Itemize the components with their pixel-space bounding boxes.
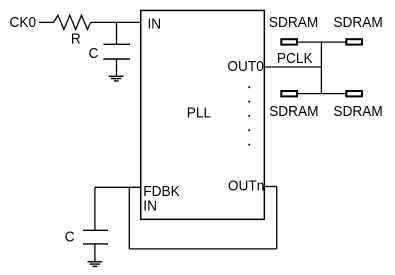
wire down to capacitor C2 [94, 187, 96, 230]
termination resistor (bottom left) [281, 91, 297, 96]
svg-text:OUT0: OUT0 [227, 58, 263, 75]
PLL block label [187, 105, 211, 122]
wire node down to capacitor C1 [116, 22, 118, 44]
svg-text:SDRAM: SDRAM [269, 103, 318, 120]
pin label IN [148, 16, 162, 33]
capacitor C2 value label C [65, 229, 75, 246]
svg-text:CK0: CK0 [10, 14, 37, 31]
svg-text:PLL: PLL [187, 105, 211, 122]
wire FDBK IN pin to capacitor branch [95, 186, 140, 188]
svg-text:SDRAM: SDRAM [333, 103, 382, 120]
svg-text:OUTn: OUTn [228, 178, 264, 195]
node PCLK label [277, 51, 313, 68]
svg-text:SDRAM: SDRAM [269, 14, 318, 31]
resistor value label R [71, 31, 81, 48]
wire feedback bottom horizontal [129, 248, 276, 250]
SDRAM label (bottom right) [333, 103, 382, 120]
svg-text:IN: IN [148, 16, 162, 33]
SDRAM label (top left) [269, 14, 318, 31]
wire capacitor C1 to ground [116, 59, 118, 76]
capacitor C1 [103, 44, 130, 59]
resistor R [54, 15, 91, 29]
wire top row to termination resistors [298, 41, 345, 43]
svg-text:SDRAM: SDRAM [333, 14, 382, 31]
wire feedback left vertical [128, 187, 130, 249]
wire PCLK vertical bus [320, 42, 322, 94]
wire node to PLL IN pin [117, 21, 141, 23]
svg-text:PCLK: PCLK [277, 51, 313, 68]
wire feedback right vertical [276, 187, 278, 249]
wire OUT0 to PCLK bus [265, 66, 322, 68]
wire OUTn out of PLL [265, 186, 277, 188]
svg-text:R: R [71, 31, 81, 48]
wire resistor to node [91, 21, 117, 23]
pin label IN (FDBK) [143, 198, 157, 215]
wire CK0 to resistor [39, 21, 54, 23]
ellipsis dots between OUT0 and OUTn [248, 86, 250, 145]
node CK0 label [10, 14, 37, 31]
ground (C1) [109, 76, 124, 81]
pin label OUTn [228, 178, 264, 195]
svg-text:C: C [89, 46, 99, 63]
pin label FDBK [143, 183, 180, 200]
pin label OUT0 [227, 58, 263, 75]
SDRAM label (top right) [333, 14, 382, 31]
capacitor C1 value label C [89, 46, 99, 63]
termination resistor (top left) [281, 39, 297, 44]
ground (C2) [88, 262, 103, 267]
SDRAM label (bottom left) [269, 103, 318, 120]
wire bottom row to termination resistors [298, 93, 345, 95]
op-amp U1 PLL block [141, 10, 265, 219]
wire capacitor C2 to ground [94, 244, 96, 262]
termination resistor (top right) [346, 39, 362, 44]
svg-text:IN: IN [143, 198, 157, 215]
termination resistor (bottom right) [346, 91, 362, 96]
capacitor C2 [83, 230, 108, 244]
svg-text:C: C [65, 229, 75, 246]
